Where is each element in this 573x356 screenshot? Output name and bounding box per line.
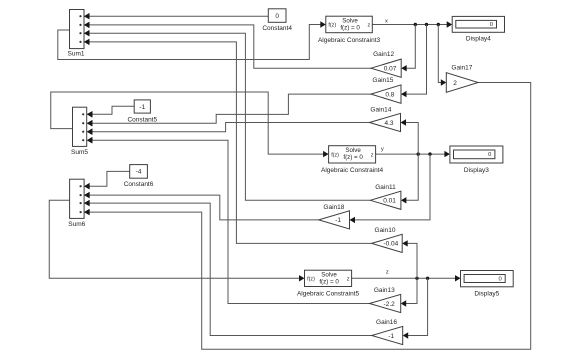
svg-text:0: 0 xyxy=(498,276,501,282)
svg-text:z: z xyxy=(367,23,370,29)
svg-text:z: z xyxy=(347,277,350,283)
svg-text:4.3: 4.3 xyxy=(385,120,394,127)
svg-text:Sum1: Sum1 xyxy=(68,51,85,58)
svg-text:0.07: 0.07 xyxy=(384,66,397,73)
svg-text:f(z): f(z) xyxy=(307,277,315,283)
svg-text:Gain14: Gain14 xyxy=(370,106,391,113)
svg-text:0.01: 0.01 xyxy=(383,198,396,205)
svg-text:Constant4: Constant4 xyxy=(262,25,292,32)
svg-text:Gain10: Gain10 xyxy=(375,227,396,234)
svg-text:Algebraic Constraint3: Algebraic Constraint3 xyxy=(318,37,381,44)
svg-text:y: y xyxy=(381,147,384,153)
svg-text:Display4: Display4 xyxy=(466,36,491,43)
svg-text:Algebraic Constraint4: Algebraic Constraint4 xyxy=(321,167,384,174)
svg-text:Gain16: Gain16 xyxy=(376,319,397,326)
svg-text:Solve: Solve xyxy=(321,271,337,278)
svg-text:0: 0 xyxy=(490,22,493,28)
svg-text:Solve: Solve xyxy=(345,147,361,154)
svg-text:2: 2 xyxy=(453,80,457,87)
svg-text:-1: -1 xyxy=(388,333,394,340)
svg-text:Gain11: Gain11 xyxy=(375,184,396,191)
svg-text:f(z): f(z) xyxy=(328,23,336,29)
svg-text:-2.2: -2.2 xyxy=(384,301,396,308)
svg-text:Display5: Display5 xyxy=(474,290,499,297)
svg-text:f(z) = 0: f(z) = 0 xyxy=(319,278,339,285)
svg-text:Algebraic Constraint5: Algebraic Constraint5 xyxy=(297,291,360,298)
svg-text:f(z): f(z) xyxy=(331,153,339,159)
svg-text:0: 0 xyxy=(275,13,279,20)
svg-text:f(z) = 0: f(z) = 0 xyxy=(340,24,360,31)
svg-text:f(z) = 0: f(z) = 0 xyxy=(343,154,363,161)
svg-text:-4: -4 xyxy=(136,169,142,176)
svg-text:Sum5: Sum5 xyxy=(71,149,88,156)
svg-text:Gain18: Gain18 xyxy=(323,204,344,211)
svg-text:Gain13: Gain13 xyxy=(374,287,395,294)
svg-text:Display3: Display3 xyxy=(464,167,489,174)
svg-text:0.8: 0.8 xyxy=(385,91,394,98)
svg-text:-0.04: -0.04 xyxy=(383,241,398,248)
svg-text:Gain15: Gain15 xyxy=(372,77,393,84)
svg-text:Constant6: Constant6 xyxy=(124,181,154,188)
svg-text:Gain17: Gain17 xyxy=(451,65,472,72)
svg-text:-1: -1 xyxy=(335,217,341,224)
svg-text:x: x xyxy=(385,18,388,24)
svg-text:Sum6: Sum6 xyxy=(68,221,85,228)
svg-text:-1: -1 xyxy=(139,104,145,111)
svg-text:Constant5: Constant5 xyxy=(127,117,157,124)
svg-text:z: z xyxy=(371,153,374,159)
svg-text:Gain12: Gain12 xyxy=(373,51,394,58)
svg-text:0: 0 xyxy=(488,152,491,158)
svg-text:Solve: Solve xyxy=(342,17,358,24)
svg-text:z: z xyxy=(386,270,389,276)
